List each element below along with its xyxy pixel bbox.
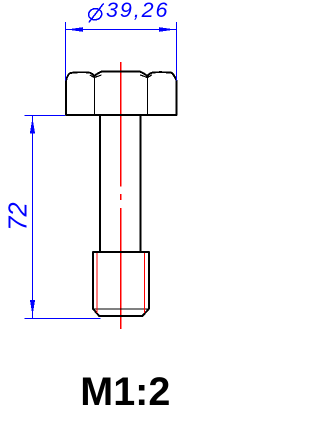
72 extension line top bbox=[24, 115, 65, 117]
diameter symbol bbox=[88, 3, 104, 22]
head face boundary left bbox=[94, 78, 96, 115]
72 extension line bottom bbox=[24, 318, 100, 320]
dia extension line right bbox=[176, 22, 178, 81]
dia arrow right bbox=[159, 27, 176, 32]
dia arrow left bbox=[67, 27, 84, 32]
shank left edge bbox=[99, 116, 101, 252]
centerline (red dash-dot axis) bbox=[120, 62, 122, 329]
72 arrow bottom bbox=[30, 300, 35, 315]
thread section outline bbox=[93, 252, 149, 316]
72 arrow top bbox=[30, 118, 35, 134]
shank right edge bbox=[140, 116, 142, 252]
bolt head outline bbox=[66, 71, 177, 115]
dia extension line left bbox=[65, 22, 67, 81]
head chamfer notch right bbox=[140, 75, 152, 78]
72 dimension line bbox=[32, 116, 34, 319]
thread minor diameter left (thin red) bbox=[96, 253, 98, 313]
thread minor diameter right (thin red) bbox=[144, 253, 146, 313]
head chamfer notch left bbox=[90, 75, 102, 78]
svg-text:M1:2: M1:2 bbox=[80, 370, 170, 414]
chamfer edge line bbox=[93, 308, 149, 310]
head face boundary right bbox=[147, 78, 149, 115]
svg-text:39,26: 39,26 bbox=[106, 0, 169, 22]
dia dimension line bbox=[66, 29, 177, 31]
svg-text:72: 72 bbox=[4, 202, 32, 230]
